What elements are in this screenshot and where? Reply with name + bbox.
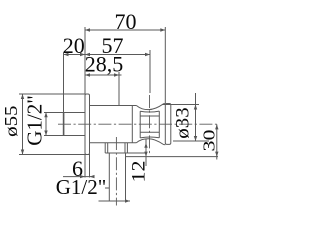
svg-text:G1/2": G1/2" [56, 175, 107, 199]
svg-text:70: 70 [115, 9, 137, 34]
svg-text:G1/2": G1/2" [23, 95, 47, 146]
svg-text:20: 20 [63, 33, 85, 58]
svg-text:30: 30 [200, 129, 219, 151]
svg-text:12: 12 [129, 161, 149, 183]
svg-text:ø33: ø33 [172, 107, 193, 139]
svg-text:ø55: ø55 [2, 105, 21, 136]
svg-text:28,5: 28,5 [85, 52, 124, 77]
